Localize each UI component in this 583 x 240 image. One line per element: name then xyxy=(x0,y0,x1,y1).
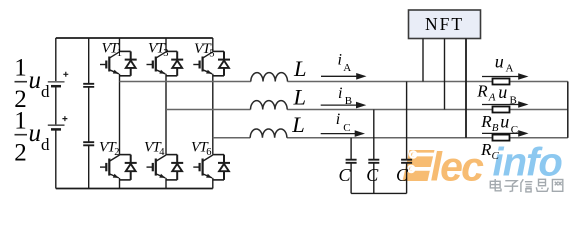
svg-text:R: R xyxy=(476,81,488,100)
svg-text:lec: lec xyxy=(431,144,485,190)
wire capacitor star bottom xyxy=(351,192,407,194)
wire leg 1 midsection xyxy=(119,74,121,155)
transistor VT3 (IGBT, top of leg 2) xyxy=(147,38,178,76)
diode VD3 (antiparallel with VT3) xyxy=(171,51,183,75)
wire left rail middle segment xyxy=(55,86,57,125)
svg-text:info: info xyxy=(493,141,563,185)
wire NFT to phase A xyxy=(422,39,424,82)
wire right neutral vertical xyxy=(567,82,569,138)
svg-text:R: R xyxy=(480,112,492,131)
logo letter E stylized xyxy=(403,150,437,181)
transistor VT1 (IGBT, top of leg 1) xyxy=(100,38,131,76)
svg-text:B: B xyxy=(510,94,517,106)
wire leg 2 emitter to bottom bus xyxy=(165,178,167,189)
svg-text:2: 2 xyxy=(114,147,119,158)
svg-text:u: u xyxy=(495,52,504,72)
wire dc mid rail middle xyxy=(88,87,90,142)
label VT2 xyxy=(99,139,120,158)
svg-text:5: 5 xyxy=(209,49,214,60)
current arrow iA xyxy=(321,73,367,80)
wire left rail bottom segment xyxy=(55,129,57,188)
transistor VT5 (IGBT, top of leg 3) xyxy=(193,38,224,76)
label RC xyxy=(480,140,500,162)
svg-text:R: R xyxy=(480,140,492,159)
inductor L phase A xyxy=(251,73,288,82)
svg-text:2: 2 xyxy=(14,139,27,166)
svg-text:B: B xyxy=(492,122,499,134)
svg-text:1: 1 xyxy=(117,48,122,59)
voltage arrow uA xyxy=(482,73,529,80)
NFT block xyxy=(409,10,481,39)
voltage arrow uC xyxy=(482,130,529,137)
resistor RB xyxy=(493,107,510,113)
label 1/2 ud upper xyxy=(14,54,50,113)
网 xyxy=(552,180,562,192)
resistor RC xyxy=(493,135,510,141)
label RA xyxy=(476,81,496,103)
svg-text:L: L xyxy=(293,85,307,110)
label VT3 xyxy=(148,40,169,59)
svg-text:1: 1 xyxy=(14,54,27,81)
circuit will be inserted here xyxy=(14,10,568,193)
子 xyxy=(505,181,517,192)
svg-text:NFT: NFT xyxy=(425,14,464,34)
label VT6 xyxy=(191,139,212,158)
svg-text:i: i xyxy=(336,111,340,128)
watermark logo Elecinfo xyxy=(403,141,563,192)
svg-text:C: C xyxy=(492,150,500,162)
label uA xyxy=(495,52,514,75)
wire leg 3 emitter to bottom bus xyxy=(212,178,214,189)
svg-text:C: C xyxy=(511,124,518,136)
transistor VT6 (IGBT, bottom of leg 3) xyxy=(193,155,224,180)
wire leg 2 midsection xyxy=(165,74,167,155)
capacitor C branch 3 (from phase A) xyxy=(401,82,412,194)
label RB xyxy=(480,112,499,134)
wire dc mid rail bottom xyxy=(88,145,90,188)
battery source lower xyxy=(48,125,65,129)
wire phase A with inductor L xyxy=(120,81,568,83)
inductor L phase B xyxy=(251,101,288,110)
label 1/2 ud lower xyxy=(14,107,50,166)
svg-text:d: d xyxy=(41,135,50,154)
svg-text:C: C xyxy=(339,165,352,185)
diode VD5 (antiparallel with VT5) xyxy=(218,51,230,75)
svg-text:L: L xyxy=(293,56,307,81)
wire phase C with inductor L xyxy=(213,137,568,139)
transistor VT4 (IGBT, bottom of leg 2) xyxy=(147,155,178,180)
current arrow iC xyxy=(321,130,365,137)
label VT5 xyxy=(194,41,215,60)
label iB xyxy=(338,85,352,107)
diode VD6 (antiparallel with VT6) xyxy=(218,155,230,180)
wire leg 1 emitter to bottom bus xyxy=(119,178,121,189)
plus sign lower xyxy=(62,116,67,121)
wire NFT to phase B xyxy=(444,39,446,110)
svg-text:u: u xyxy=(29,67,42,94)
svg-text:u: u xyxy=(500,112,509,132)
plus sign upper xyxy=(63,72,68,77)
息 xyxy=(539,179,546,185)
svg-text:C: C xyxy=(366,165,379,185)
capacitor C branch 2 (from phase B) xyxy=(368,110,379,194)
svg-text:i: i xyxy=(338,85,342,102)
wire leg 3 midsection xyxy=(212,74,214,155)
svg-text:4: 4 xyxy=(159,147,165,158)
信 xyxy=(521,179,523,192)
svg-text:3: 3 xyxy=(163,48,168,59)
inductor L phase C xyxy=(250,129,287,138)
电 xyxy=(495,179,501,191)
diode VD2 (antiparallel with VT2) xyxy=(125,155,137,180)
label uC xyxy=(500,112,518,136)
svg-text:A: A xyxy=(506,63,514,75)
svg-text:d: d xyxy=(41,82,50,101)
resistor RA xyxy=(493,79,510,85)
wire NFT to phase C xyxy=(465,39,467,138)
svg-text:u: u xyxy=(29,120,42,147)
wire left rail top segment xyxy=(55,38,57,82)
svg-text:C: C xyxy=(343,122,350,134)
logo chinese 电子信息网 xyxy=(490,179,563,192)
svg-text:A: A xyxy=(343,62,351,74)
svg-text:C: C xyxy=(396,165,409,185)
wire top bus xyxy=(56,37,213,39)
transistor VT2 (IGBT, bottom of leg 1) xyxy=(100,155,131,180)
svg-text:1: 1 xyxy=(14,107,27,134)
capacitor C branch 1 (from phase C) xyxy=(346,138,357,194)
diode VD1 (antiparallel with VT1) xyxy=(125,51,137,75)
wire bottom bus xyxy=(56,188,213,190)
voltage arrow uB xyxy=(482,101,529,108)
diode VD4 (antiparallel with VT4) xyxy=(171,155,183,180)
svg-text:i: i xyxy=(338,52,342,69)
capacitor dc-link upper xyxy=(83,84,94,87)
label VT4 xyxy=(144,139,165,158)
battery source upper xyxy=(48,82,65,86)
svg-text:L: L xyxy=(291,112,305,137)
label iC xyxy=(336,111,351,134)
label iA xyxy=(338,52,352,74)
label uB xyxy=(498,82,517,107)
svg-text:6: 6 xyxy=(206,147,211,158)
label VT1 xyxy=(102,40,123,59)
svg-text:A: A xyxy=(488,92,496,104)
wire phase B with inductor L xyxy=(166,109,568,111)
capacitor dc-link lower xyxy=(83,142,94,145)
svg-text:u: u xyxy=(498,82,507,102)
current arrow iB xyxy=(321,102,367,109)
wire dc mid rail top xyxy=(88,38,90,84)
svg-text:B: B xyxy=(345,95,352,107)
